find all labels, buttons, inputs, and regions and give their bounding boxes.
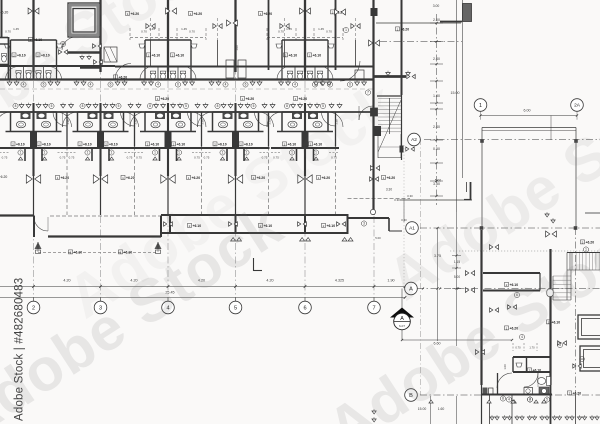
svg-text:4: 4 — [157, 83, 159, 87]
svg-text:8: 8 — [149, 104, 151, 108]
6.00 dimension — [481, 115, 578, 117]
row1 party walls — [32, 0, 34, 72]
svg-text:1.45: 1.45 — [13, 27, 19, 31]
svg-text:1: 1 — [345, 28, 347, 32]
row1 top wall bowties — [28, 8, 39, 14]
wing labels — [505, 282, 519, 287]
triangles below bathroom — [429, 400, 433, 403]
svg-text:0.30: 0.30 — [394, 198, 400, 202]
dimension line 4.20 row — [0, 286, 405, 288]
building grid lines (dash-dot verticals for column grid 2-7) — [33, 0, 35, 301]
edge block + bowtie at x401 — [400, 146, 404, 153]
svg-text:2A: 2A — [574, 103, 581, 109]
svg-text:+6.10: +6.10 — [42, 142, 51, 146]
svg-text:2: 2 — [172, 53, 174, 57]
A2 grid line — [424, 139, 600, 141]
svg-text:+6.10: +6.10 — [327, 224, 336, 228]
column mid right — [470, 182, 472, 200]
svg-text:1.00: 1.00 — [235, 45, 239, 51]
svg-text:0.75: 0.75 — [127, 156, 133, 160]
row2 top wall — [0, 111, 373, 113]
svg-text:3.30: 3.30 — [386, 188, 392, 192]
svg-text:1: 1 — [479, 103, 482, 109]
row2 marker triangle row above wall — [19, 105, 24, 108]
svg-text:+6.20: +6.20 — [192, 176, 201, 180]
svg-text:1: 1 — [87, 151, 89, 155]
closets at grid 5 — [226, 60, 234, 78]
svg-text:1: 1 — [383, 176, 385, 180]
svg-text:1: 1 — [188, 176, 190, 180]
svg-text:3: 3 — [363, 222, 365, 226]
svg-text:1.80: 1.80 — [433, 94, 440, 98]
svg-text:1: 1 — [190, 12, 192, 16]
svg-text:+6.20: +6.20 — [161, 97, 170, 101]
courtyard grid bubbles 1 and 2A — [474, 99, 487, 112]
svg-text:+6.10: +6.10 — [218, 142, 227, 146]
svg-text:1.60: 1.60 — [438, 407, 445, 411]
chain 1.15 / 5.00 — [456, 212, 458, 346]
svg-text:2: 2 — [529, 398, 531, 402]
svg-text:6: 6 — [110, 83, 112, 87]
svg-text:2: 2 — [173, 142, 175, 146]
grid line A — [417, 288, 600, 290]
svg-text:+6.20: +6.20 — [194, 12, 203, 16]
svg-text:1: 1 — [242, 97, 244, 101]
svg-text:0.70: 0.70 — [5, 30, 11, 34]
double wall strip x161-347 — [161, 214, 348, 216]
small exterior stub — [253, 258, 255, 271]
svg-text:3.00: 3.00 — [433, 4, 440, 8]
svg-text:5: 5 — [546, 398, 548, 402]
svg-text:3: 3 — [559, 343, 561, 347]
row1 stall band heavy walls — [0, 65, 115, 67]
row1 upper dimension brackets (0.70/1.45) — [130, 37, 206, 39]
svg-text:+6.10: +6.10 — [16, 142, 25, 146]
svg-text:0.30: 0.30 — [407, 194, 413, 198]
row1 marker triangles below wall — [7, 82, 12, 85]
svg-text:1.38: 1.38 — [268, 119, 272, 125]
svg-text:+6.20: +6.20 — [0, 175, 7, 179]
dotted line — [450, 250, 600, 252]
svg-text:5: 5 — [51, 104, 53, 108]
svg-text:4: 4 — [329, 83, 331, 87]
svg-text:6-07: 6-07 — [399, 324, 405, 328]
svg-text:5.00: 5.00 — [375, 236, 381, 240]
svg-text:+6.20: +6.20 — [299, 97, 308, 101]
svg-text:7: 7 — [372, 306, 375, 312]
building lower-right outline — [400, 199, 472, 201]
svg-text:0.50: 0.50 — [433, 147, 440, 151]
left edge wall fragments — [1, 0, 3, 37]
grid line A1 — [420, 227, 600, 229]
svg-text:+6.10: +6.10 — [177, 142, 186, 146]
svg-text:1: 1 — [260, 12, 262, 16]
wing bottom wall — [481, 394, 552, 396]
svg-text:+6.10: +6.10 — [176, 53, 185, 57]
top-right outline — [376, 22, 461, 24]
svg-text:3: 3 — [332, 10, 334, 14]
svg-text:8: 8 — [286, 104, 288, 108]
svg-text:1: 1 — [122, 176, 124, 180]
grid bubbles 2..7 — [33, 298, 35, 302]
stairs top right wing — [585, 212, 600, 214]
stairwell at grid 7 — [377, 95, 401, 97]
svg-text:4.20: 4.20 — [266, 279, 273, 283]
toilet wing — [547, 377, 551, 386]
svg-text:+6.10: +6.10 — [109, 142, 118, 146]
svg-text:+6.10: +6.10 — [151, 142, 160, 146]
svg-text:1: 1 — [154, 151, 156, 155]
svg-text:5: 5 — [234, 306, 237, 312]
svg-text:0.75: 0.75 — [204, 156, 210, 160]
svg-text:A2: A2 — [411, 137, 417, 143]
svg-text:0.75: 0.75 — [194, 156, 200, 160]
svg-text:+6.20: +6.20 — [387, 176, 396, 180]
svg-text:1: 1 — [222, 151, 224, 155]
svg-text:4: 4 — [294, 83, 296, 87]
wing door arcs — [524, 373, 538, 387]
svg-text:2: 2 — [240, 142, 242, 146]
svg-text:0.70: 0.70 — [278, 30, 284, 34]
bathroom dim bracket — [512, 343, 514, 351]
svg-text:2: 2 — [105, 142, 107, 146]
svg-text:2: 2 — [285, 53, 287, 57]
svg-text:1: 1 — [44, 151, 46, 155]
svg-text:5: 5 — [118, 104, 120, 108]
wing bathroom block — [513, 356, 550, 358]
bottom fixtures — [483, 388, 488, 395]
svg-text:1.38: 1.38 — [134, 119, 138, 125]
svg-text:2: 2 — [79, 142, 81, 146]
svg-text:2: 2 — [12, 142, 14, 146]
chain A1-A 3.75 — [437, 228, 439, 341]
svg-text:4.325: 4.325 — [335, 279, 344, 283]
svg-text:+6.10: +6.10 — [83, 142, 92, 146]
svg-text:1.38: 1.38 — [201, 119, 205, 125]
walls near stair — [371, 108, 378, 116]
section marker A — [401, 289, 403, 313]
svg-text:8: 8 — [82, 104, 84, 108]
svg-text:0.70: 0.70 — [189, 30, 195, 34]
svg-text:1: 1 — [157, 97, 159, 101]
svg-text:+6.10: +6.10 — [289, 53, 298, 57]
svg-text:0.70: 0.70 — [326, 30, 332, 34]
svg-text:+6.10: +6.10 — [152, 53, 161, 57]
svg-text:Adobe Stock | #482680483: Adobe Stock | #482680483 — [14, 278, 26, 421]
svg-text:+6.20: +6.20 — [401, 27, 410, 31]
total dimension 25.45 — [0, 297, 405, 299]
svg-text:1.45: 1.45 — [318, 27, 324, 31]
svg-text:1.00: 1.00 — [503, 364, 507, 370]
svg-text:2: 2 — [309, 53, 311, 57]
+6.10 labels along bottom strip — [188, 223, 202, 228]
svg-text:+6.20: +6.20 — [246, 97, 255, 101]
svg-text:6: 6 — [303, 306, 306, 312]
svg-text:2: 2 — [148, 53, 150, 57]
row1 closet fixtures — [104, 47, 117, 62]
svg-text:+6.20: +6.20 — [126, 176, 135, 180]
row1 top level labels +6.20 — [126, 11, 140, 16]
svg-text:+6.20: +6.20 — [61, 176, 70, 180]
svg-text:1: 1 — [115, 75, 117, 79]
grid line B — [420, 394, 600, 396]
svg-text:2: 2 — [147, 142, 149, 146]
misc right bottom bits — [348, 198, 411, 200]
svg-text:1.45: 1.45 — [286, 27, 292, 31]
recess dimension bracket +6.10 labels — [38, 252, 158, 254]
row1 bathroom cores — [11, 39, 57, 41]
svg-text:6.00: 6.00 — [524, 109, 531, 113]
svg-text:0.75: 0.75 — [69, 156, 75, 160]
wing bowties — [465, 271, 474, 276]
svg-text:+6.10: +6.10 — [74, 250, 83, 254]
svg-text:+6.20: +6.20 — [119, 75, 128, 79]
below B verticals — [430, 396, 432, 424]
corridor walls — [0, 88, 373, 90]
svg-text:1: 1 — [57, 176, 59, 180]
bottom bowtie row — [490, 417, 494, 420]
corridor bridge wall at stair bay — [373, 75, 406, 78]
svg-text:2: 2 — [70, 250, 72, 254]
svg-text:5.00: 5.00 — [435, 179, 441, 183]
svg-text:A: A — [400, 316, 404, 322]
svg-text:4: 4 — [90, 83, 92, 87]
svg-text:8: 8 — [217, 104, 219, 108]
svg-text:1.45: 1.45 — [181, 27, 187, 31]
svg-text:1: 1 — [20, 151, 22, 155]
svg-text:2.40: 2.40 — [433, 57, 440, 61]
vertical dimension chain — [436, 14, 438, 205]
elevator landing wall — [68, 51, 100, 54]
row1 mid-unit bowties — [150, 18, 152, 40]
svg-text:6: 6 — [177, 83, 179, 87]
svg-text:2.40: 2.40 — [433, 125, 440, 129]
svg-text:1: 1 — [397, 27, 399, 31]
svg-text:2: 2 — [323, 224, 325, 228]
svg-text:1: 1 — [178, 151, 180, 155]
svg-text:2: 2 — [32, 306, 35, 312]
svg-text:+6.10: +6.10 — [313, 53, 322, 57]
svg-text:0.75: 0.75 — [60, 156, 66, 160]
column top right — [463, 4, 472, 22]
wing walls — [480, 230, 482, 385]
svg-text:2: 2 — [38, 142, 40, 146]
right edge shafts — [578, 315, 600, 339]
svg-text:5: 5 — [185, 104, 187, 108]
svg-text:1: 1 — [111, 151, 113, 155]
svg-text:0.75: 0.75 — [136, 156, 142, 160]
row2 party walls and cores — [66, 112, 68, 147]
bottom wall with balcony recess — [0, 214, 34, 216]
svg-text:1: 1 — [295, 97, 297, 101]
svg-text:+6.10: +6.10 — [244, 142, 253, 146]
svg-text:5: 5 — [253, 104, 255, 108]
entry arrows at recess — [35, 242, 42, 249]
elevator shaft — [68, 3, 100, 37]
corridor level labels — [114, 75, 128, 80]
svg-text:2.00: 2.00 — [433, 18, 440, 22]
6.60 dimension — [402, 339, 512, 341]
svg-text:2: 2 — [214, 142, 216, 146]
svg-text:3.50: 3.50 — [433, 182, 440, 186]
svg-text:8: 8 — [502, 397, 504, 401]
svg-text:15.00: 15.00 — [451, 91, 460, 95]
svg-text:1.38: 1.38 — [66, 119, 70, 125]
svg-text:0.75: 0.75 — [2, 156, 8, 160]
svg-text:4: 4 — [508, 398, 510, 402]
svg-text:+6.20: +6.20 — [264, 12, 273, 16]
courtyard rectangle — [482, 127, 576, 129]
svg-text:6: 6 — [245, 83, 247, 87]
svg-text:4: 4 — [225, 83, 227, 87]
